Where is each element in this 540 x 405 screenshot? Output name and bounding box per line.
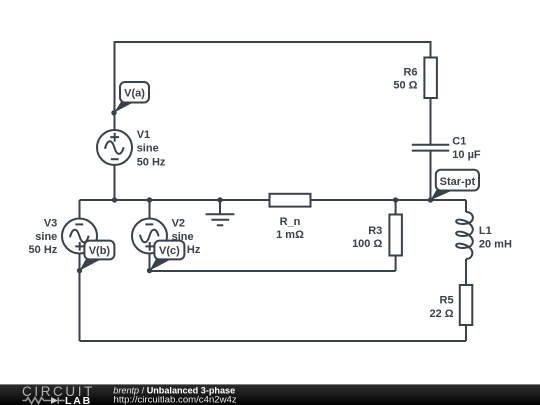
svg-text:22 Ω: 22 Ω xyxy=(429,308,453,320)
svg-text:http://circuitlab.com/c4n2w4z: http://circuitlab.com/c4n2w4z xyxy=(114,395,237,405)
svg-text:R_n: R_n xyxy=(280,216,301,228)
svg-text:50 Ω: 50 Ω xyxy=(393,80,417,92)
svg-text:R3: R3 xyxy=(368,225,382,237)
svg-text:V3: V3 xyxy=(44,218,57,230)
svg-text:Star-pt: Star-pt xyxy=(440,176,476,188)
svg-text:R5: R5 xyxy=(440,295,454,307)
svg-text:10 µF: 10 µF xyxy=(452,149,481,161)
svg-text:V(c): V(c) xyxy=(159,245,180,257)
svg-text:100 Ω: 100 Ω xyxy=(352,238,382,250)
svg-text:20 mH: 20 mH xyxy=(479,239,512,251)
svg-text:V(a): V(a) xyxy=(124,88,145,100)
svg-text:R6: R6 xyxy=(403,67,417,79)
svg-text:V2: V2 xyxy=(172,218,185,230)
svg-text:50 Hz: 50 Hz xyxy=(29,244,58,256)
svg-text:L1: L1 xyxy=(479,225,492,237)
svg-text:V(b): V(b) xyxy=(89,245,111,257)
svg-text:LAB: LAB xyxy=(65,395,92,405)
svg-text:1 mΩ: 1 mΩ xyxy=(276,229,304,241)
svg-text:sine: sine xyxy=(137,143,159,155)
svg-text:C1: C1 xyxy=(452,136,466,148)
svg-text:50 Hz: 50 Hz xyxy=(137,157,166,169)
svg-text:V1: V1 xyxy=(137,129,150,141)
svg-text:sine: sine xyxy=(35,231,57,243)
